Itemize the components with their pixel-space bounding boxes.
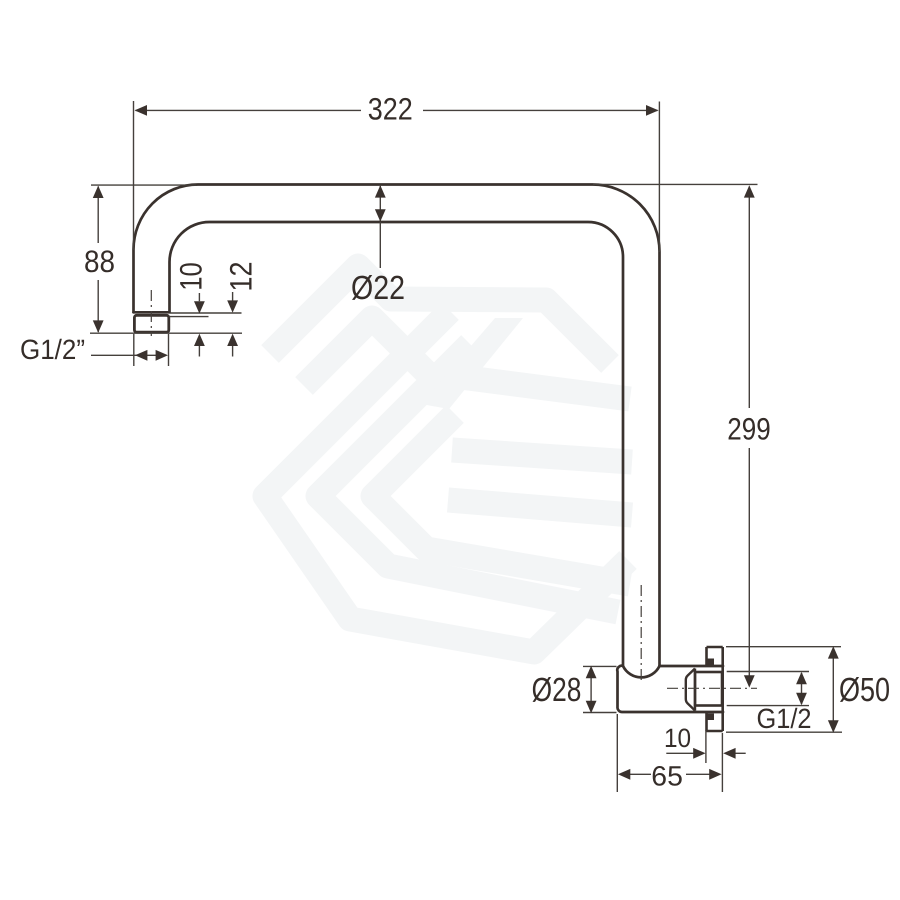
svg-text:Ø28: Ø28 (532, 672, 582, 709)
arrowhead 299 up (744, 185, 755, 197)
arrowhead G1/2 right-pointing (156, 350, 168, 361)
arrowhead 10 bottom left-pointing (723, 748, 735, 759)
dim G1/2 right arrow shaft (801, 673, 803, 704)
svg-text:65: 65 (651, 761, 683, 792)
dim 65 right extension line (721, 733, 723, 792)
dim G1/2 left leader line (91, 354, 165, 356)
dim 88 bottom extension line (90, 332, 242, 334)
arrowhead 12 down (227, 300, 238, 312)
arrowhead 65 left (618, 769, 630, 780)
svg-text:G1/2: G1/2 (757, 703, 812, 734)
arrowhead 10 bottom right-pointing (693, 748, 705, 759)
watermark logo hexagon ribbons (265, 266, 632, 652)
dim 322 left extension line (133, 101, 135, 250)
watermark center patch (421, 318, 523, 409)
dim 10 bottom extension line (705, 731, 707, 764)
svg-text:10: 10 (664, 723, 691, 753)
dim O28 bottom extension line (583, 712, 617, 714)
wall connector chamfered cap (686, 669, 695, 711)
dim 12 reference line (170, 312, 242, 314)
dim 299 dimension line (748, 187, 750, 686)
dim O22 arrow shaft and leader (379, 186, 381, 268)
arrowhead G1/2 right up (796, 672, 807, 684)
arrowhead 299 down (744, 675, 755, 687)
dim G1/2 right top extension line (727, 671, 809, 673)
arrowhead 322 left (135, 105, 148, 116)
elbow body outline (617, 666, 723, 712)
arrowhead O28 down (586, 701, 597, 713)
dim 10 reference line (170, 316, 209, 318)
centerline left outlet (150, 290, 152, 336)
dim O50 top extension line (726, 646, 841, 648)
svg-text:G1/2”: G1/2” (20, 334, 85, 365)
shower arm tube inner outline (170, 222, 624, 666)
arrowhead 322 right (646, 105, 659, 116)
wall G1/2 threaded section (695, 672, 722, 706)
dim 88 top extension line (91, 184, 196, 186)
arrowhead G1/2 left-pointing (135, 350, 147, 361)
arrowhead O50 up (828, 646, 839, 658)
arrowhead 10 down (194, 301, 205, 313)
dim O50 bottom extension line (726, 731, 842, 733)
centerline vertical tube (640, 585, 642, 682)
centerline wall outlet (667, 687, 757, 689)
arrowhead O50 down (828, 720, 839, 732)
dim O50 dimension line (832, 648, 834, 731)
svg-text:299: 299 (727, 411, 770, 446)
dim G1/2 left extension line b (168, 334, 170, 366)
svg-text:12: 12 (224, 262, 259, 292)
wall flange top bracket (707, 647, 723, 666)
dim 10 arrow tails (198, 293, 200, 357)
svg-text:88: 88 (84, 244, 115, 279)
arrowhead G1/2 right down (796, 693, 807, 705)
dim 10 bottom right tail (735, 752, 746, 754)
flange bottom notch (708, 714, 715, 721)
wall flange bottom bracket (707, 712, 723, 731)
dim G1/2 left extension line a (133, 334, 135, 366)
arrowhead 10 up (194, 334, 205, 346)
tube to elbow junction arc (623, 666, 660, 677)
dim 65 left extension line (616, 714, 618, 792)
arrowhead 88 down (93, 320, 104, 332)
tube end face line left (134, 311, 170, 314)
svg-text:Ø50: Ø50 (839, 672, 890, 709)
dim 322 right extension line (658, 102, 660, 253)
arrowhead O28 up (586, 666, 597, 678)
svg-text:322: 322 (368, 91, 413, 126)
dim 10 bottom left tail (666, 752, 694, 754)
left G1/2 threaded connector (134, 315, 168, 332)
arrowhead 65 right (709, 769, 721, 780)
shower arm tube outer outline (134, 185, 660, 667)
svg-text:Ø22: Ø22 (351, 270, 405, 307)
dim 88 dimension line (97, 187, 99, 333)
arrowhead 88 up (93, 186, 104, 198)
dim 299 top extension line (593, 183, 758, 185)
arrowhead O22 up (375, 185, 386, 197)
dim O28 arrow shaft (590, 668, 592, 711)
arrowhead 12 up (227, 334, 238, 346)
dim 65 dimension line (620, 773, 721, 775)
flange top notch (708, 659, 715, 666)
dim 322 dimension line (136, 109, 658, 111)
dim G1/2 right bottom extension line (727, 705, 809, 707)
wall connector cap joint line (694, 669, 696, 711)
arrowhead O22 down (375, 209, 386, 221)
dim O28 top extension line (583, 665, 617, 667)
wall flange plate right edge (721, 647, 724, 731)
svg-text:10: 10 (174, 262, 209, 291)
dim 12 arrow tails (232, 292, 234, 357)
